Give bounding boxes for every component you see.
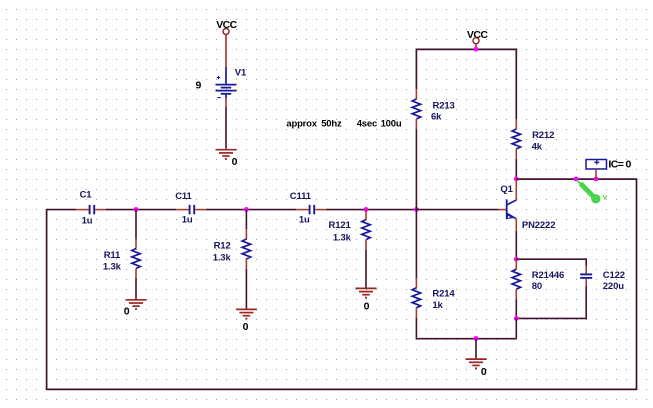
wire C122 bottom to node F (516, 317, 587, 319)
node A junction (134, 207, 139, 212)
resistor R214 value 1k (412, 278, 455, 318)
wire V1 to ground (225, 107, 227, 149)
wire node D down to R214 (415, 210, 417, 279)
svg-text:Q1: Q1 (500, 184, 513, 195)
wire node F to emitter bottom rail (515, 318, 517, 338)
wire VCC rail down to R212 (515, 49, 517, 119)
node probe junction (574, 177, 579, 182)
svg-text:4k: 4k (532, 141, 543, 152)
wire R21446 to node F (515, 299, 517, 318)
svg-text:1.3k: 1.3k (333, 233, 352, 244)
svg-text:R11: R11 (104, 250, 121, 261)
ground 0 (under R11) (124, 300, 147, 318)
initial condition symbol IC= 0 (586, 159, 632, 180)
wire node B down to R12 (245, 210, 247, 229)
wire bottom feedback rail (46, 388, 638, 390)
wire node D to Q1 base (416, 209, 498, 211)
svg-text:0: 0 (481, 366, 487, 378)
svg-text:PN2222: PN2222 (522, 220, 555, 231)
svg-text:C122: C122 (603, 270, 625, 281)
svg-text:1u: 1u (299, 215, 310, 226)
svg-text:0: 0 (232, 156, 238, 168)
svg-text:IC= 0: IC= 0 (608, 159, 631, 171)
svg-text:1u: 1u (182, 215, 193, 226)
svg-text:4sec: 4sec (357, 119, 377, 130)
svg-text:6k: 6k (431, 111, 442, 122)
resistor R12 value 1.3k (213, 229, 251, 269)
wire rail: left corner to C1 (46, 209, 76, 211)
resistor R121 value 1.3k (329, 210, 371, 250)
wire left feedback vertical (46, 210, 48, 390)
voltage probe marker V (577, 179, 608, 203)
ground 0 (under R121) (356, 288, 377, 312)
svg-text:0: 0 (364, 301, 370, 313)
node collector junction (514, 177, 519, 182)
resistor R21446 value 80 (512, 259, 564, 299)
wire R212 to collector node (515, 159, 517, 179)
ground 0 (under V1) (216, 150, 238, 168)
svg-text:R21446: R21446 (532, 270, 564, 281)
wire V1 minus pin lead (225, 98, 227, 107)
svg-text:V1: V1 (235, 68, 247, 79)
svg-text:R212: R212 (532, 130, 554, 141)
wire C11 to node B / node B to C111 (206, 209, 296, 211)
power symbol VCC (left) (216, 19, 237, 34)
svg-text:approx: approx (286, 119, 317, 130)
ground 0 (under R12) (236, 309, 257, 333)
transistor Q1 PN2222 (499, 180, 556, 231)
svg-text:v: v (603, 191, 608, 201)
wire right feedback vertical (636, 179, 638, 389)
node D junction (bias tap) (414, 207, 419, 212)
wire R214 to emitter bottom rail (416, 318, 516, 339)
wire ground stub (475, 339, 477, 359)
svg-text:C111: C111 (290, 191, 312, 202)
wire R12 to ground (245, 269, 247, 309)
wire C1 to node A (106, 209, 176, 211)
svg-text:1k: 1k (432, 300, 443, 311)
svg-text:R121: R121 (329, 220, 352, 231)
battery V1 value 9 (196, 67, 247, 98)
svg-text:80: 80 (532, 281, 542, 292)
node C junction (R121 tap) (364, 207, 369, 212)
wire R11 to ground (135, 279, 137, 300)
node E junction (514, 257, 519, 262)
svg-text:50hz: 50hz (321, 119, 342, 130)
ground 0 (emitter network) (466, 359, 487, 378)
svg-text:100u: 100u (381, 119, 402, 130)
wire VCC top rail (416, 48, 518, 50)
annotation text: approx 50hz 4sec 100u (286, 119, 401, 130)
resistor R11 value 1.3k (103, 239, 140, 279)
wire emitter down to node E (515, 231, 517, 259)
svg-text:R214: R214 (432, 288, 455, 299)
resistor R212 value 4k (512, 119, 554, 159)
power symbol VCC (right) (467, 29, 488, 49)
svg-text:1.3k: 1.3k (213, 253, 232, 264)
wire R121 to ground (365, 250, 367, 288)
wire collector rail to right edge (516, 178, 637, 180)
capacitor C122 value 220u (580, 258, 625, 319)
wire C111 to node D (326, 209, 416, 211)
wire VCC rail down to R213 (415, 49, 417, 89)
wire R213 to node D (415, 129, 417, 210)
svg-text:R12: R12 (214, 241, 231, 252)
svg-text:R213: R213 (433, 100, 455, 111)
svg-text:0: 0 (243, 321, 249, 333)
capacitor C11 value 1u (175, 191, 206, 226)
wire VCC stub to V1 plus pin (225, 35, 227, 67)
svg-text:1.3k: 1.3k (103, 262, 122, 273)
capacitor C1 value 1u (76, 189, 106, 226)
svg-text:9: 9 (196, 80, 202, 92)
capacitor C111 value 1u (290, 191, 326, 226)
node F junction (514, 316, 519, 321)
node ground tap junction (474, 336, 479, 341)
wire node E to C122 top (516, 258, 587, 260)
svg-text:C1: C1 (80, 189, 93, 200)
svg-text:1u: 1u (82, 216, 93, 227)
node IC stub junction (594, 177, 599, 182)
resistor R213 value 6k (412, 89, 454, 129)
wire node A down to R11 (135, 210, 137, 239)
svg-text:C11: C11 (175, 191, 192, 202)
node VCC rail junction (474, 47, 479, 52)
svg-text:0: 0 (124, 306, 130, 318)
node B junction (244, 207, 249, 212)
svg-text:220u: 220u (603, 281, 624, 292)
